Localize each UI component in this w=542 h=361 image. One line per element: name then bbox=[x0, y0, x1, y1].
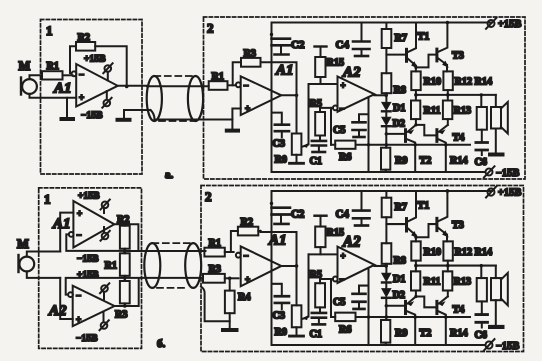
shielded cable: lower signal wire bbox=[125, 277, 203, 279]
svg-text:R1: R1 bbox=[209, 238, 221, 249]
power pin symbol bbox=[100, 283, 109, 299]
svg-text:+15В: +15В bbox=[84, 54, 106, 64]
svg-text:+15В: +15В bbox=[78, 191, 100, 201]
power pin symbol bbox=[100, 312, 109, 331]
svg-text:R1: R1 bbox=[212, 72, 224, 83]
svg-text:M: M bbox=[17, 237, 29, 251]
power pin symbol upper bbox=[103, 63, 112, 80]
svg-text:а.: а. bbox=[165, 169, 174, 181]
block 2 dashed border bbox=[201, 186, 524, 352]
wire: R1 to inverting input bbox=[225, 251, 234, 253]
svg-text:R3: R3 bbox=[209, 264, 221, 275]
core amplifier internals bbox=[236, 18, 522, 179]
wire: R1 to inverting input bbox=[63, 74, 73, 76]
svg-text:+: + bbox=[77, 209, 82, 219]
svg-text:A1: A1 bbox=[268, 233, 287, 249]
op-amp A1 of block 1 bbox=[69, 201, 115, 248]
power pin symbol bbox=[101, 200, 110, 213]
core amplifier internals bbox=[236, 186, 522, 352]
svg-text:1: 1 bbox=[46, 23, 53, 38]
shielded cable: return wire bbox=[151, 110, 233, 120]
svg-text:A1: A1 bbox=[52, 216, 71, 232]
wire: to A2 + input bbox=[60, 278, 72, 319]
BOTTOM CIRCUIT (b) bbox=[17, 186, 524, 353]
resistor R1 bbox=[120, 249, 130, 276]
resistor R2 bbox=[120, 224, 130, 249]
svg-text:−15В: −15В bbox=[81, 110, 103, 120]
wire: A1 feedback bbox=[66, 234, 125, 251]
ground at A1 + input bbox=[62, 98, 74, 119]
svg-text:−15В: −15В bbox=[76, 333, 98, 343]
svg-text:+: + bbox=[76, 315, 81, 325]
power pin symbol bbox=[101, 227, 110, 241]
svg-text:R2: R2 bbox=[117, 215, 129, 226]
resistor R1 of block 2 bbox=[204, 248, 224, 257]
wire: A2 output to cable line bbox=[115, 279, 139, 307]
svg-text:R2: R2 bbox=[241, 217, 253, 228]
svg-text:2: 2 bbox=[207, 21, 214, 36]
cable shield ellipse right bbox=[188, 76, 203, 121]
svg-text:R1: R1 bbox=[105, 261, 117, 272]
svg-text:б.: б. bbox=[157, 338, 166, 350]
ground for cable return bbox=[118, 110, 151, 120]
resistor R1 of block 2 bbox=[209, 81, 228, 90]
svg-text:R2: R2 bbox=[78, 33, 90, 44]
svg-text:R4: R4 bbox=[238, 292, 250, 303]
wire: A1 output to R2 bbox=[114, 224, 138, 251]
svg-text:R1: R1 bbox=[47, 61, 59, 72]
svg-text:A2: A2 bbox=[48, 303, 67, 319]
svg-text:−15В: −15В bbox=[77, 254, 99, 264]
TOP CIRCUIT (a) bbox=[19, 17, 526, 181]
svg-text:+: + bbox=[79, 93, 84, 103]
resistor R2 (feedback) bbox=[231, 227, 261, 252]
svg-text:A1: A1 bbox=[53, 81, 72, 97]
cable shield dashed outline bbox=[154, 76, 195, 121]
resistor R2 bbox=[76, 42, 95, 51]
svg-text:A1: A1 bbox=[275, 63, 294, 79]
wire: R1 to inverting input bbox=[228, 84, 236, 86]
power pin symbol lower bbox=[102, 91, 111, 108]
op-amp A1 of block 1 bbox=[72, 64, 118, 107]
wire: to A1 + input bbox=[60, 213, 73, 252]
resistor R3 of block 2 bbox=[203, 274, 225, 283]
wire: R3 to + input bbox=[225, 277, 239, 279]
svg-text:R3: R3 bbox=[115, 310, 127, 321]
wire: feedback right leg to output bbox=[95, 46, 127, 86]
svg-text:2: 2 bbox=[205, 189, 212, 204]
svg-text:1: 1 bbox=[44, 192, 51, 207]
block 1 dashed border bbox=[41, 20, 143, 175]
block 2 dashed border bbox=[204, 17, 526, 179]
svg-text:−: − bbox=[76, 291, 81, 301]
resistor R1 bbox=[42, 71, 63, 79]
wire: A1 output to cable bbox=[118, 85, 147, 87]
resistor R4 bbox=[223, 278, 237, 330]
cable shield ellipse right bbox=[185, 243, 201, 288]
cable shield dashed outline bbox=[152, 243, 193, 288]
block 1 dashed border bbox=[39, 188, 142, 349]
resistor R3 (feedback) bbox=[233, 58, 261, 85]
svg-text:−: − bbox=[77, 230, 82, 240]
resistor R3 bbox=[120, 276, 130, 306]
op-amp A2 of block 1 bbox=[68, 286, 114, 327]
cable shield ellipse left bbox=[144, 243, 160, 288]
shielded cable: signal wire bbox=[147, 85, 209, 87]
shielded cable: upper signal wire bbox=[125, 250, 206, 252]
wire: A2 feedback bbox=[66, 278, 125, 295]
svg-text:R3: R3 bbox=[244, 49, 256, 60]
wire: + input to ground and cable return bbox=[227, 109, 241, 131]
svg-text:M: M bbox=[19, 59, 31, 73]
wire: shield to ground bbox=[201, 287, 230, 322]
wire: feedback left leg bbox=[70, 46, 76, 73]
cable shield ellipse left bbox=[147, 76, 162, 121]
svg-text:−: − bbox=[79, 70, 84, 80]
